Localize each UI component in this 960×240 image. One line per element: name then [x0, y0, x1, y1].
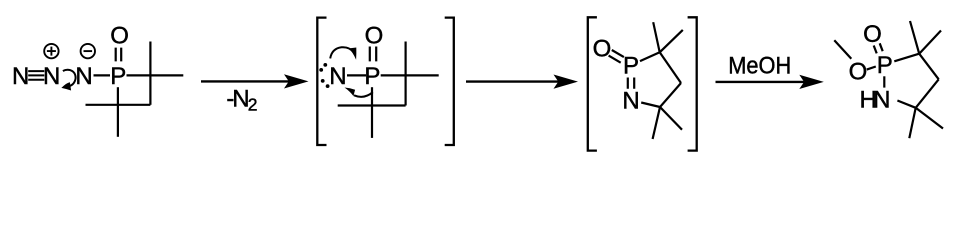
svg-text:P: P — [877, 52, 893, 79]
svg-text:O: O — [365, 23, 384, 50]
svg-text:P: P — [623, 53, 639, 80]
svg-text:N: N — [329, 63, 346, 90]
svg-text:O: O — [110, 23, 129, 50]
svg-text:O: O — [849, 58, 868, 85]
svg-text:O: O — [863, 21, 882, 48]
svg-text:N: N — [12, 63, 29, 90]
svg-text:O: O — [593, 36, 612, 63]
svg-text:P: P — [364, 63, 380, 90]
svg-text:MeOH: MeOH — [728, 52, 791, 79]
svg-text:N: N — [43, 63, 60, 90]
svg-text:2: 2 — [248, 95, 258, 115]
svg-text:N: N — [873, 87, 890, 114]
svg-text:P: P — [110, 63, 126, 90]
svg-text:N: N — [622, 88, 639, 115]
svg-text:N: N — [75, 63, 92, 90]
